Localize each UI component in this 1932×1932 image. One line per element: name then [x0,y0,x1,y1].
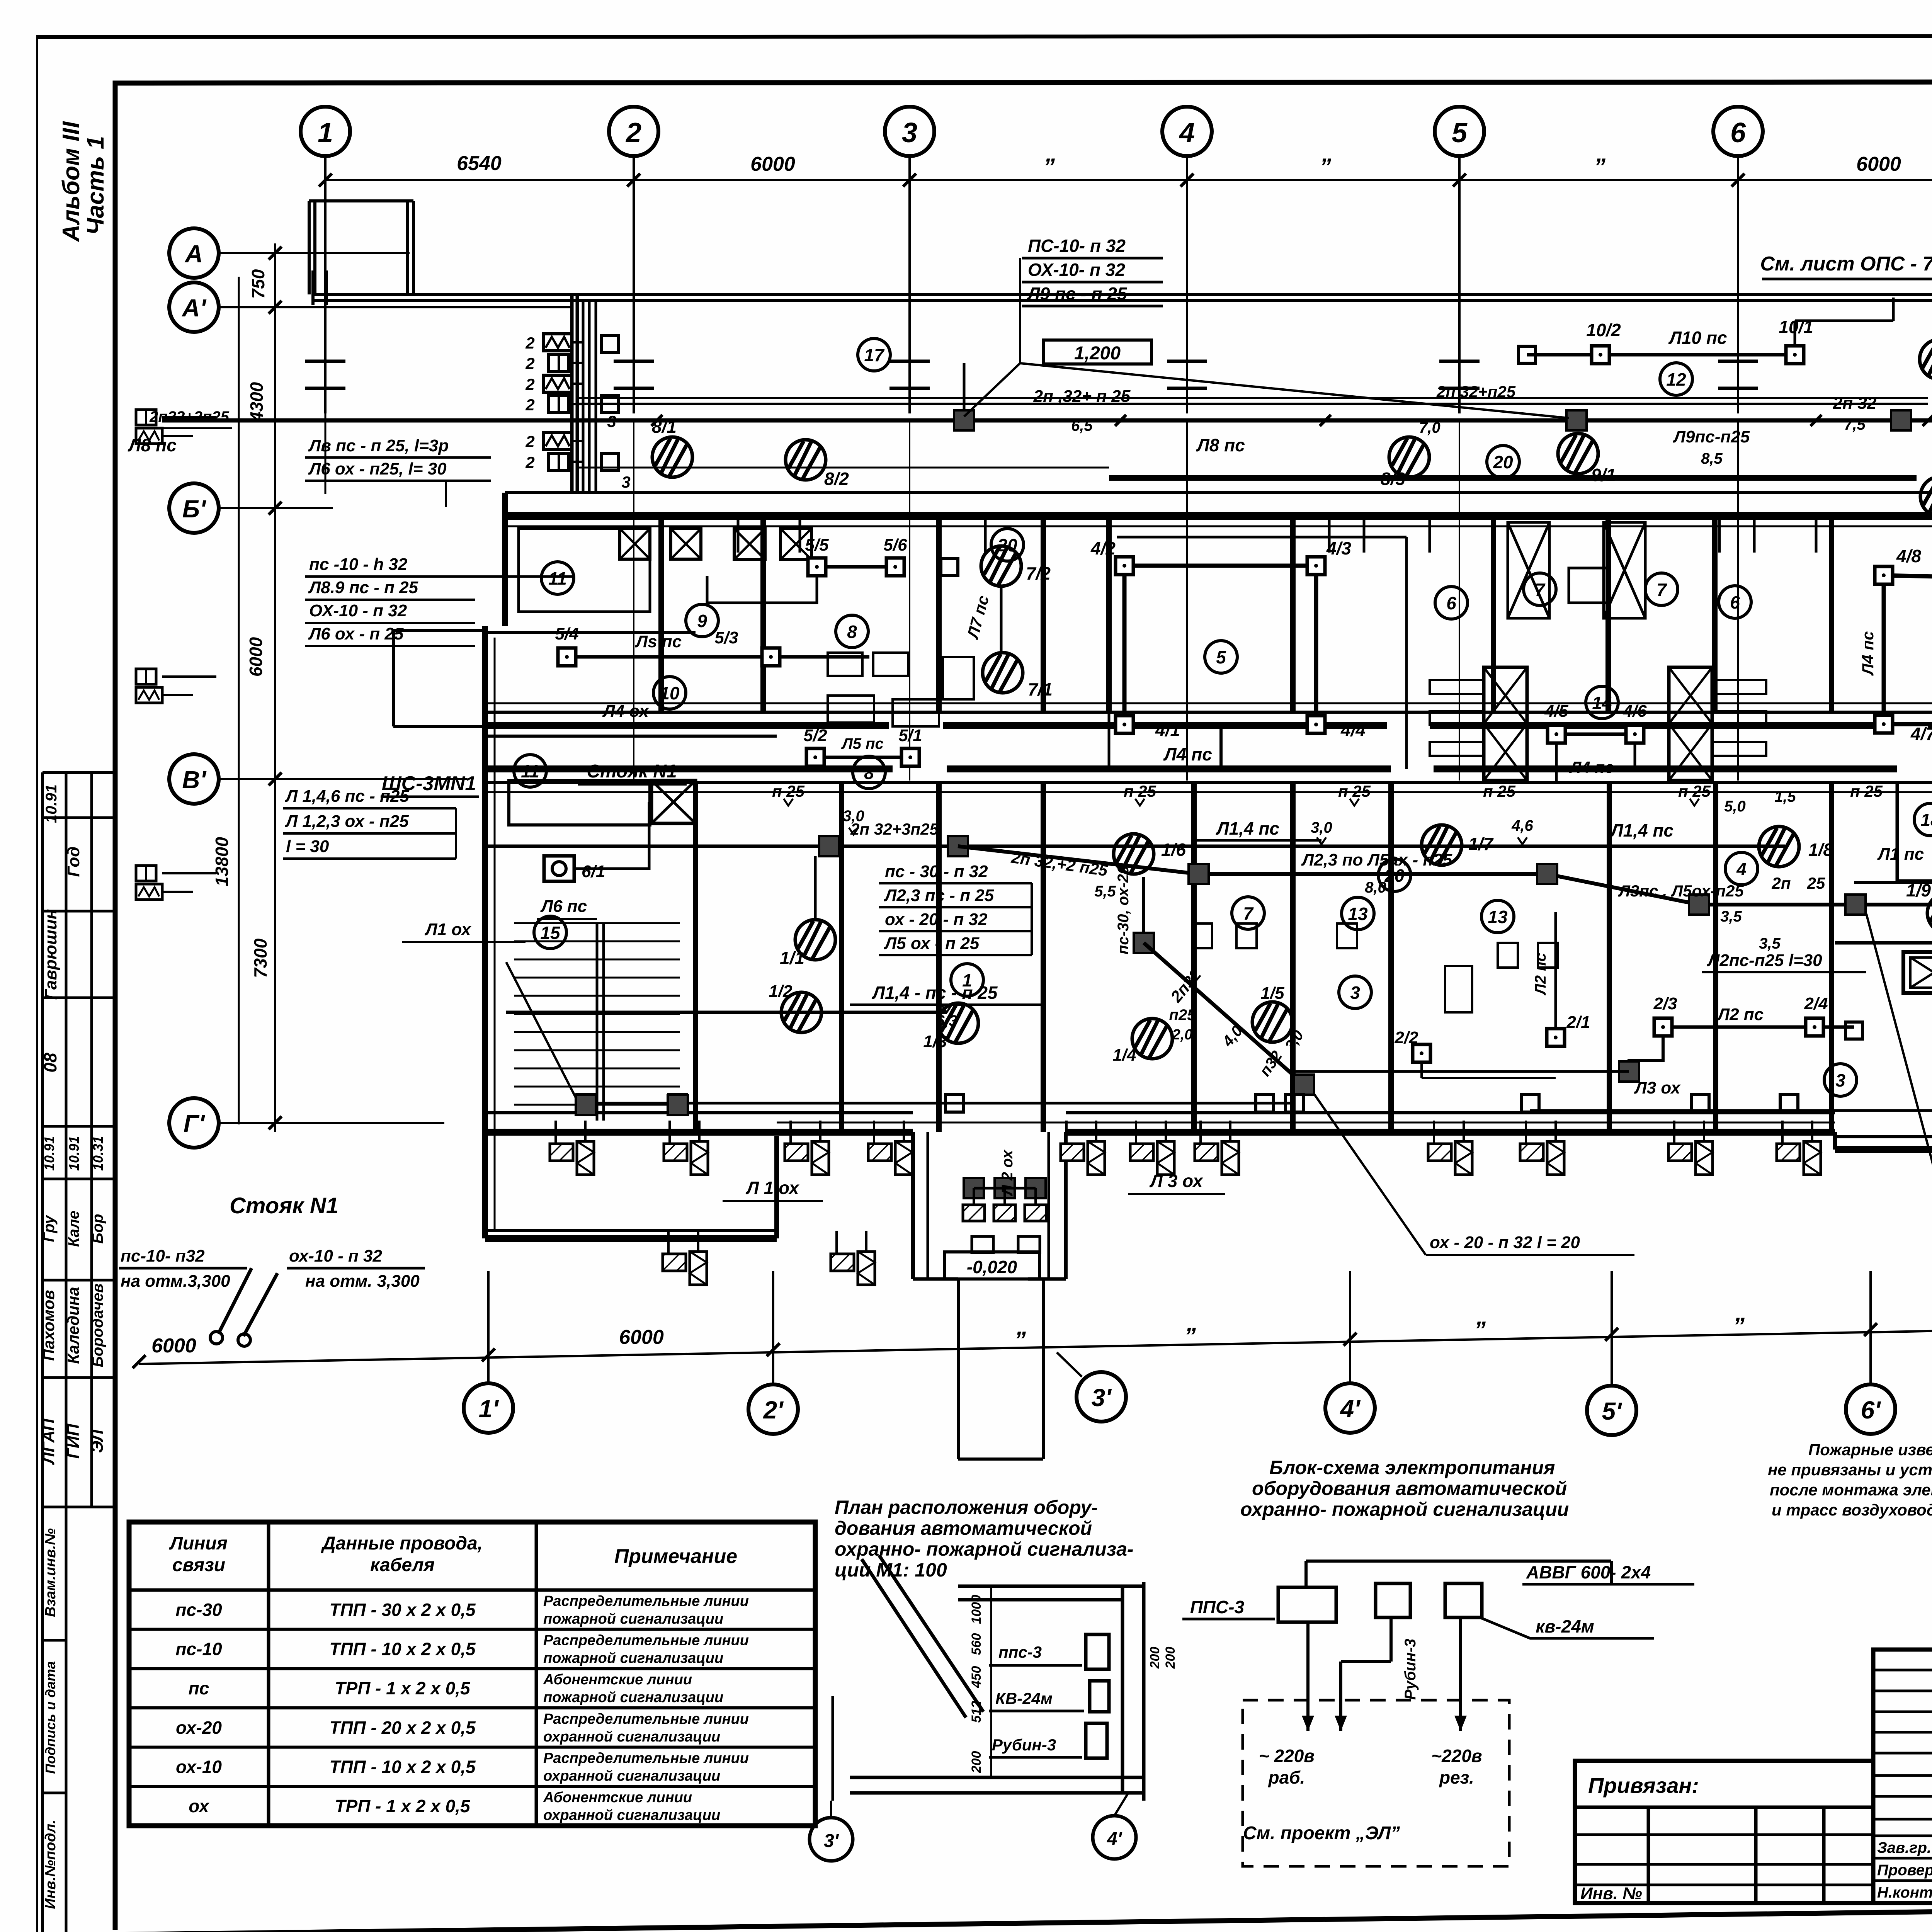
svg-text:1/2: 1/2 [769,982,793,1001]
svg-text:пожарной сигнализации: пожарной сигнализации [543,1650,723,1667]
svg-text:А': А' [181,294,206,322]
svg-text:7300: 7300 [250,938,270,978]
svg-text:4/2: 4/2 [1090,538,1116,558]
room circle 20 [991,529,1024,561]
room circle 15 [534,916,566,949]
svg-text:560: 560 [969,1633,984,1655]
left margin risers [136,410,156,425]
svg-text:”: ” [1043,154,1055,180]
svg-text:Л2 пс: Л2 пс [1532,953,1549,996]
radiator pair at 4348 [1668,1121,1713,1175]
room circle 11 [541,562,574,594]
signature grid columns [1873,1650,1932,1903]
svg-text:2/3: 2/3 [1653,994,1677,1013]
svg-text:кабеля: кабеля [370,1555,435,1575]
svg-text:6: 6 [1730,117,1746,148]
svg-text:Взам.инв.№: Взам.инв.№ [43,1528,59,1617]
svg-text:См. проект „ЭЛ”: См. проект „ЭЛ” [1243,1823,1400,1844]
svg-text:20: 20 [1493,452,1513,472]
svg-text:Рубин-3: Рубин-3 [1402,1639,1419,1700]
svg-text:2п: 2п [1771,874,1791,892]
svg-text:9: 9 [697,611,707,631]
svg-text:пс: пс [189,1678,209,1698]
svg-text:17: 17 [864,345,885,365]
svg-text:2,0: 2,0 [1172,1027,1193,1043]
svg-text:пожарной сигнализации: пожарной сигнализации [543,1611,723,1627]
entrance interior risers [964,1178,984,1198]
shelves near shafts [1430,680,1484,694]
svg-text:Гру: Гру [41,1215,58,1242]
svg-text:ЭЛ: ЭЛ [88,1429,107,1453]
svg-text:Л3пс , Л5ох-п25: Л3пс , Л5ох-п25 [1618,882,1744,900]
svg-text:Бородачев: Бородачев [89,1284,106,1367]
svg-text:Абонентские линии: Абонентские линии [543,1672,692,1688]
svg-text:ох: ох [189,1796,210,1816]
svg-text:4/7: 4/7 [1910,724,1932,744]
svg-text:и трасс воздуховодов: и трасс воздуховодов [1772,1501,1932,1519]
sanitary fixtures rooms 13 [1192,923,1212,948]
svg-text:после монтажа электросветиль: после монтажа электросветильников [1770,1481,1932,1499]
diagonal feeder run [958,846,1932,905]
svg-text:2: 2 [525,453,534,471]
svg-text:Стояк N1: Стояк N1 [230,1193,338,1218]
portico left wall [570,294,574,494]
svg-text:ТПП - 10 х 2 х 0,5: ТПП - 10 х 2 х 0,5 [329,1757,476,1777]
svg-text:5/1: 5/1 [898,726,922,745]
svg-text:2: 2 [525,432,534,451]
svg-text:10.91: 10.91 [66,1136,82,1171]
radiator pairs left block lower [663,1231,707,1285]
column grid circles 1-8 with leader lines [301,107,350,156]
svg-text:Распределительные линии: Распределительные линии [543,1750,749,1767]
radiator pair at 2775 [1061,1121,1105,1175]
svg-text:Провер.: Провер. [1877,1862,1932,1879]
svg-text:5': 5' [1602,1397,1622,1425]
privyazan box [1575,1761,1873,1903]
svg-text:1/8: 1/8 [1808,840,1833,860]
svg-text:ТРП - 1 х 2 х 0,5: ТРП - 1 х 2 х 0,5 [335,1678,471,1698]
svg-text:АВВГ 600- 2х4: АВВГ 600- 2х4 [1526,1562,1651,1582]
left protruding stub [393,629,485,632]
svg-text:Л6 пс: Л6 пс [540,897,587,916]
svg-text:Л9 пс - п 25: Л9 пс - п 25 [1027,284,1128,304]
svg-text:7,0: 7,0 [1419,419,1440,436]
room circle 13 [1481,900,1514,933]
room 11 inner walls [519,529,650,612]
svg-text:4/5: 4/5 [1544,702,1568,721]
svg-text:8,5: 8,5 [1701,450,1723,467]
svg-text:ТРП - 1 х 2 х 0,5: ТРП - 1 х 2 х 0,5 [335,1796,471,1816]
svg-text:13: 13 [1488,907,1508,927]
svg-text:Абонентские линии: Абонентские линии [543,1789,692,1806]
svg-text:18: 18 [1920,810,1932,830]
svg-text:Л6 ох - п25, l= 30: Л6 ох - п25, l= 30 [308,459,447,478]
interior partitions lower row [693,782,698,1132]
svg-text:7/1: 7/1 [1028,679,1053,699]
svg-text:6000: 6000 [151,1335,196,1357]
svg-text:1: 1 [318,117,333,148]
svg-text:4/6: 4/6 [1622,702,1647,721]
svg-text:оборудования автоматической: оборудования автоматической [1252,1478,1567,1499]
svg-text:6000: 6000 [1856,153,1901,175]
bottom wire run and detectors [586,1102,1294,1105]
svg-text:4/3: 4/3 [1326,538,1351,558]
svg-text:5/5: 5/5 [805,536,829,554]
corridor bottom wall [485,765,893,772]
svg-text:”: ” [1474,1317,1486,1343]
svg-text:ох-10: ох-10 [176,1757,222,1777]
svg-text:дования автоматической: дования автоматической [835,1517,1092,1539]
PPS-3 box [1278,1587,1336,1622]
svg-text:Гаврюшин: Гаврюшин [41,909,60,1000]
svg-text:5/6: 5/6 [883,536,907,554]
svg-text:3: 3 [1835,1070,1845,1090]
svg-text:450: 450 [969,1666,984,1689]
svg-text:Рубин-3: Рубин-3 [992,1736,1056,1754]
entrance protrusion walls [911,1132,915,1279]
equipment boxes PPS-3 KV-24M Rubin-3 [1086,1634,1109,1669]
svg-text:1000: 1000 [969,1595,984,1624]
svg-text:”: ” [1733,1313,1745,1339]
bottom grid circle 3' below entrance [1077,1372,1126,1422]
svg-text:Примечание: Примечание [614,1545,737,1568]
cable table [129,1522,815,1826]
radiator pair at 1748 [664,1121,708,1175]
svg-text:1/4: 1/4 [1112,1046,1136,1065]
svg-text:ЛГАП: ЛГАП [39,1418,58,1465]
svg-text:4: 4 [1736,859,1747,879]
door stubs below top wall [737,518,740,553]
svg-text:2: 2 [525,354,534,372]
left riser bank symbols [543,334,572,351]
svg-text:10.91: 10.91 [43,784,60,823]
svg-text:1,200: 1,200 [1074,343,1121,364]
svg-text:Л8.9 пс - п 25: Л8.9 пс - п 25 [308,578,418,597]
svg-text:5,5: 5,5 [1094,883,1116,900]
showers and fixtures room 6/7 [1508,522,1549,618]
svg-text:2: 2 [525,334,534,352]
svg-text:12: 12 [1666,369,1686,389]
svg-text:Л 1 ох: Л 1 ох [745,1178,800,1198]
misc v-ticks along runs [784,799,793,806]
cable row ох-10 [129,1785,815,1788]
svg-text:ТПП - 10 х 2 х 0,5: ТПП - 10 х 2 х 0,5 [329,1639,476,1659]
svg-text:Н.конт.: Н.конт. [1877,1884,1932,1901]
run L8ps along gallery [162,418,1932,423]
step and bottom wall centre [774,1136,779,1238]
bottom dimension line [139,1327,1932,1364]
svg-text:План расположения обору-: План расположения обору- [835,1497,1098,1518]
svg-text:750: 750 [248,269,268,299]
svg-text:на отм.3,300: на отм.3,300 [121,1272,230,1291]
svg-text:6: 6 [1446,593,1456,613]
svg-text:1,5: 1,5 [1774,788,1796,805]
svg-text:Распределительные линии: Распределительные линии [543,1633,749,1649]
radiator pair at 2277 [868,1121,912,1175]
dashed supply box [1243,1700,1509,1866]
svg-text:5/2: 5/2 [803,726,827,745]
svg-text:6,3: 6,3 [936,1012,957,1029]
junction boxes corridor [819,836,839,856]
left wall of main block [502,493,508,626]
bottom wall left block [485,1229,777,1232]
room circle 9 [686,604,718,637]
room circle 18 [1914,803,1932,836]
svg-text:6000: 6000 [246,637,266,677]
svg-text:пожарной сигнализации: пожарной сигнализации [543,1689,723,1706]
room circle 6 [1435,587,1468,619]
svg-text:Л1 пс: Л1 пс [1877,845,1924,864]
bottom grid circles 1'-7' [464,1383,513,1433]
radiator pair at 4628 [1777,1121,1821,1175]
room circle 20 [1378,859,1411,891]
KV-24M box [1445,1583,1482,1617]
svg-text:Л2,3 пс - п 25: Л2,3 пс - п 25 [884,886,994,905]
svg-text:~ 220в: ~ 220в [1259,1746,1315,1766]
radiator pair at 1453 [550,1121,594,1175]
svg-text:Л5 пс: Л5 пс [841,735,884,752]
room circle 11 [514,755,546,787]
vent shaft boxes room 11 [620,529,650,559]
svg-text:Л 2 ох: Л 2 ох [999,1149,1016,1196]
room circle 8 [836,615,868,648]
closet row below corridor at stair block [509,781,650,825]
svg-text:10: 10 [660,683,680,703]
interior partitions upper row [658,516,664,712]
elevator shaft right [1903,952,1932,993]
svg-text:3: 3 [1350,983,1360,1003]
stair treads [514,922,680,924]
room circle 14 [1586,686,1618,719]
svg-text:512: 512 [969,1701,984,1723]
manual call points top row [652,437,692,477]
room circle 7 [1645,573,1678,605]
svg-text:3': 3' [824,1831,839,1851]
run L5ps room 10 [567,655,869,659]
svg-text:”: ” [1320,154,1331,180]
sportzal south wall (gallery top double line) [313,293,1932,296]
svg-text:Л5 ох - п 25: Л5 ох - п 25 [884,934,980,953]
svg-text:4/4: 4/4 [1340,720,1366,740]
top dimension line with ticks and values [325,179,1932,181]
svg-text:ППС-3: ППС-3 [1190,1597,1245,1617]
svg-text:рез.: рез. [1439,1767,1474,1787]
riser bus verticals (left bank) [582,301,585,494]
svg-text:8,0: 8,0 [1365,879,1386,896]
room 5 left walls [1108,537,1111,769]
svg-text:4: 4 [1179,117,1195,148]
inner wall face lines [505,526,1932,527]
svg-text:Пахомов: Пахомов [39,1290,58,1361]
svg-text:Л8 пс: Л8 пс [1196,435,1245,455]
svg-text:7,5: 7,5 [1844,416,1866,433]
room circle 12 [1660,363,1692,395]
svg-text:Л1,4 пс: Л1,4 пс [1610,820,1673,840]
svg-text:2: 2 [625,117,641,148]
svg-text:Блок-схема электропитания: Блок-схема электропитания [1269,1457,1555,1478]
room circle 3 [1339,976,1371,1009]
small plan circles 3' 4' [810,1818,853,1861]
svg-text:13800: 13800 [212,837,232,886]
svg-text:Л 1,2,3 ох - п25: Л 1,2,3 ох - п25 [285,812,409,831]
svg-text:3: 3 [902,117,917,148]
row grid circles А А' Б' В' Г' [169,228,219,278]
svg-text:п 25: п 25 [1124,782,1156,800]
radiator pair at 2955 [1130,1121,1174,1175]
svg-text:Часть 1: Часть 1 [82,136,109,235]
MCPs on corridor [1114,834,1154,874]
radiator pair at 3726 [1428,1121,1472,1175]
svg-text:пс-10- п32: пс-10- п32 [121,1247,205,1265]
svg-text:Л2пс-п25 l=30: Л2пс-п25 l=30 [1707,951,1822,970]
svg-text:Инв. №: Инв. № [1580,1884,1642,1903]
svg-text:Л1,4 пс: Л1,4 пс [1216,818,1279,838]
svg-text:КВ-24м: КВ-24м [995,1689,1053,1708]
svg-text:Год: Год [64,847,83,877]
svg-text:4': 4' [1340,1395,1361,1423]
extra vent boxes room 9 [734,529,765,560]
svg-text:15: 15 [540,923,561,943]
svg-text:пс-30: пс-30 [175,1600,222,1620]
svg-text:1/6: 1/6 [1161,840,1186,860]
detectors room 9 run 5/5 5/6 [817,565,895,569]
left dimension line vertical [274,243,276,1132]
svg-text:6540: 6540 [457,152,502,175]
svg-text:1/7: 1/7 [1468,834,1494,854]
cable row пс [129,1706,815,1709]
svg-text:7: 7 [1656,580,1667,600]
room circle 10 [653,677,686,709]
left stamp column grid [41,772,44,1932]
svg-text:Инв.№подл.: Инв.№подл. [43,1820,59,1909]
svg-text:2/4: 2/4 [1804,994,1828,1013]
svg-text:Л 3 ох: Л 3 ох [1149,1171,1204,1191]
svg-text:”: ” [1014,1327,1026,1353]
vent X shafts center [1484,667,1527,781]
small plan walls [958,1585,1144,1588]
run 5/2 5/1 room 8 [815,756,910,759]
radiator pair at 3122 [1195,1121,1239,1175]
svg-text:5: 5 [1452,117,1468,148]
svg-text:3': 3' [1092,1384,1112,1412]
svg-text:Альбом III: Альбом III [58,121,85,243]
svg-text:ГИП: ГИП [64,1423,83,1459]
cable row пс-30 [129,1628,815,1631]
svg-text:Л4 пс: Л4 пс [1569,758,1614,776]
svg-text:раб.: раб. [1268,1767,1305,1787]
room 10 band walls [485,631,696,634]
svg-text:ОХ-10 - п 32: ОХ-10 - п 32 [309,601,407,620]
-0,020 level box [945,1252,1039,1279]
block diagram wiring [1306,1560,1611,1563]
svg-text:В': В' [182,766,206,794]
svg-text:1': 1' [479,1395,499,1423]
svg-text:Л3 ох: Л3 ох [1634,1078,1681,1097]
cable row пс-10 [129,1667,815,1670]
svg-text:2: 2 [525,375,534,393]
svg-text:~220в: ~220в [1431,1746,1482,1766]
right rooms partitions [1896,782,1899,881]
svg-text:ох - 20 - п 32 l = 20: ох - 20 - п 32 l = 20 [1430,1233,1580,1252]
svg-text:Бор: Бор [89,1214,106,1243]
svg-text:Л4 пс: Л4 пс [1163,744,1212,764]
svg-text:Л2,3 по Л5ах - п25: Л2,3 по Л5ах - п25 [1301,850,1452,869]
room circle 1 [951,964,983,996]
svg-text:Л4 ох: Л4 ох [602,702,649,721]
svg-text:5/3: 5/3 [714,628,738,647]
svg-text:ппс-3: ппс-3 [998,1643,1042,1661]
svg-text:10/2: 10/2 [1586,320,1621,340]
svg-text:10.31: 10.31 [90,1136,106,1171]
svg-text:Л9пс-п25: Л9пс-п25 [1673,427,1750,446]
svg-text:2/2: 2/2 [1394,1028,1418,1047]
room circle 7 [1232,897,1264,929]
svg-text:3,5: 3,5 [1759,935,1781,952]
svg-text:5,0: 5,0 [1724,798,1746,815]
svg-text:пс -10 - h 32: пс -10 - h 32 [309,555,408,574]
main block top wall [505,491,1932,494]
room circle 6 [1719,586,1751,618]
svg-text:Подпись и дата: Подпись и дата [43,1661,58,1774]
svg-text:См. лист ОПС - 7: См. лист ОПС - 7 [1760,253,1932,275]
svg-text:на отм. 3,300: на отм. 3,300 [305,1272,420,1291]
svg-text:”: ” [1594,154,1605,180]
svg-text:1/5: 1/5 [1260,984,1284,1003]
svg-text:2п 32+п25: 2п 32+п25 [1436,383,1516,401]
room 3 run L2ps [1663,1026,1854,1029]
svg-text:2': 2' [763,1396,784,1424]
svg-text:ох-10 - п 32: ох-10 - п 32 [289,1247,383,1265]
corridor run L1,4ps [485,845,1785,848]
svg-text:4300: 4300 [247,382,267,422]
radiator pair at 2061 [785,1121,829,1175]
run L10ps room 12 [1527,353,1795,357]
svg-text:Лs пс: Лs пс [635,632,682,651]
radiator pair at 3964 [1520,1121,1564,1175]
svg-text:”: ” [1184,1323,1196,1349]
svg-text:Распределительные линии: Распределительные линии [543,1593,749,1609]
vertical feeder ps-30 [1142,877,1145,943]
room circle 8 [853,756,885,789]
svg-text:3: 3 [621,473,630,491]
svg-text:6000: 6000 [750,153,795,175]
corridor top wall [485,711,1932,714]
svg-text:5: 5 [1216,647,1226,667]
svg-text:2/1: 2/1 [1566,1013,1590,1032]
svg-text:не привязаны и устанавливаю: не привязаны и устанавливаются [1768,1461,1932,1479]
svg-text:А: А [184,240,203,268]
svg-text:l = 30: l = 30 [286,837,329,856]
svg-text:ох-20: ох-20 [176,1718,222,1738]
svg-text:Л10 пс: Л10 пс [1668,328,1727,348]
svg-text:Привязан:: Привязан: [1588,1773,1699,1798]
jboxes at stair bottom [576,1095,596,1115]
svg-text:8/1: 8/1 [652,417,677,437]
room circle 4 [1725,852,1758,885]
svg-text:Кале: Кале [65,1211,82,1247]
svg-text:п25: п25 [1169,1007,1196,1024]
svg-text:связи: связи [172,1555,225,1575]
svg-text:Зав.гр.: Зав.гр. [1877,1839,1931,1856]
svg-text:3,0: 3,0 [1311,819,1332,836]
room circle 20 [1487,446,1519,478]
svg-text:8: 8 [864,763,874,783]
svg-text:25: 25 [1807,874,1825,892]
svg-text:охранной сигнализации: охранной сигнализации [543,1807,720,1823]
svg-text:8: 8 [847,622,857,642]
svg-text:200: 200 [969,1751,984,1774]
svg-text:1/3: 1/3 [923,1032,947,1051]
